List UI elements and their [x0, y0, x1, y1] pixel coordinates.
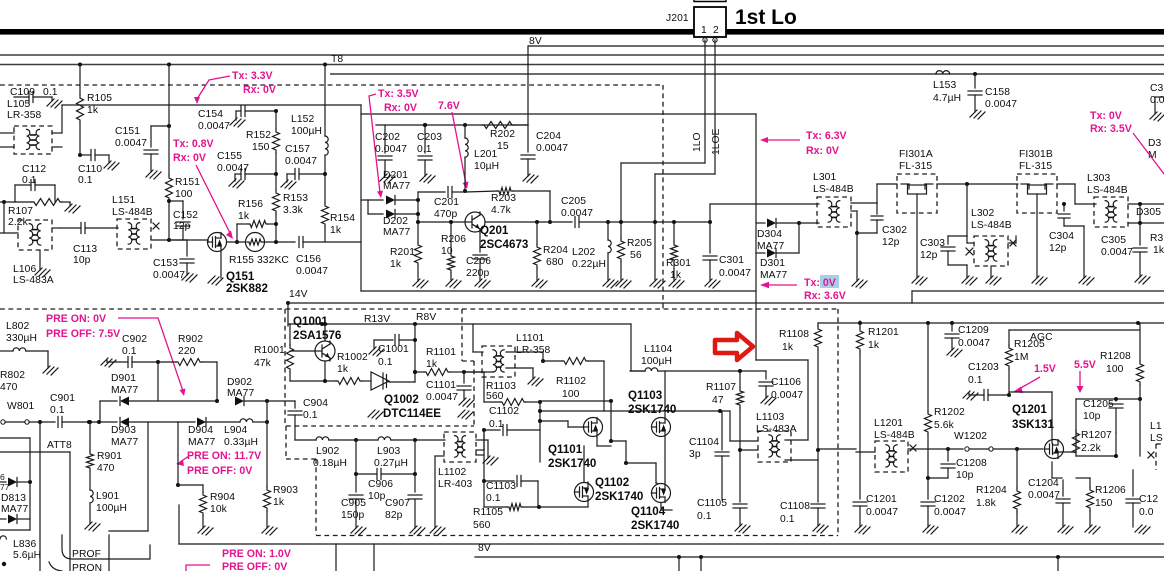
svg-text:100: 100 — [1106, 364, 1124, 375]
svg-text:8V: 8V — [529, 36, 542, 47]
svg-text:R205: R205 — [627, 238, 652, 249]
title bar — [0, 29, 1164, 35]
svg-text:0.0047: 0.0047 — [719, 268, 751, 279]
svg-text:0.1: 0.1 — [78, 175, 93, 186]
svg-text:0.0047: 0.0047 — [1101, 247, 1133, 258]
svg-text:12p: 12p — [1049, 243, 1067, 254]
svg-text:MA77: MA77 — [757, 241, 784, 252]
ground Q1002 — [368, 410, 383, 419]
wire L151 sec — [151, 239, 208, 241]
svg-text:C1102: C1102 — [489, 406, 519, 417]
wire Q201 out — [485, 221, 572, 223]
svg-text:L903: L903 — [377, 446, 400, 457]
svg-text:10µH: 10µH — [474, 161, 499, 172]
svg-text:680: 680 — [546, 257, 564, 268]
wire bottom stubs — [678, 557, 680, 571]
svg-text:2: 2 — [713, 25, 719, 36]
svg-text:R107: R107 — [8, 206, 33, 217]
svg-text:C3: C3 — [1150, 83, 1164, 94]
svg-text:1k: 1k — [868, 340, 880, 351]
svg-text:10k: 10k — [210, 504, 228, 515]
svg-text:L151: L151 — [112, 195, 135, 206]
svg-text:1.5V: 1.5V — [1034, 363, 1056, 375]
svg-text:R1002: R1002 — [337, 352, 368, 363]
svg-text:0.1: 0.1 — [697, 511, 712, 522]
wire L302 gnd — [966, 265, 968, 278]
svg-text:R1206: R1206 — [1095, 485, 1126, 496]
svg-text:0.0047: 0.0047 — [536, 143, 568, 154]
svg-text:C1203: C1203 — [968, 362, 999, 373]
svg-text:Tx: 3.3V: Tx: 3.3V — [232, 70, 273, 82]
svg-text:1k: 1k — [273, 497, 285, 508]
svg-text:R902: R902 — [178, 334, 203, 345]
svg-text:R1001: R1001 — [254, 345, 285, 356]
svg-text:LS-484B: LS-484B — [1087, 185, 1128, 196]
svg-text:C1104: C1104 — [689, 437, 719, 448]
wire mixer bottom — [587, 502, 589, 507]
svg-text:0.33µH: 0.33µH — [224, 437, 258, 448]
svg-text:L1104: L1104 — [644, 344, 673, 355]
box D813 — [0, 437, 30, 439]
svg-text:2.2k: 2.2k — [1081, 443, 1102, 454]
wire 8V bus — [528, 45, 1164, 47]
svg-text:C304: C304 — [1049, 231, 1074, 242]
svg-text:C158: C158 — [985, 87, 1010, 98]
svg-text:R802: R802 — [0, 370, 25, 381]
svg-text:Rx: 3.6V: Rx: 3.6V — [804, 290, 846, 302]
junction R105 — [78, 153, 82, 157]
ground C907 — [410, 526, 425, 535]
svg-text:12p: 12p — [920, 250, 938, 261]
wire L301 sec — [851, 202, 877, 204]
wire L902 row — [295, 439, 316, 441]
svg-text:MA77: MA77 — [1, 504, 28, 515]
svg-text:MA77: MA77 — [227, 388, 254, 399]
svg-text:0.1: 0.1 — [968, 375, 983, 386]
svg-text:12p: 12p — [882, 237, 900, 248]
svg-text:R1207: R1207 — [1081, 430, 1112, 441]
svg-text:R3: R3 — [1150, 233, 1164, 244]
ground C1202 — [923, 525, 938, 534]
svg-text:0.22µH: 0.22µH — [572, 259, 606, 270]
svg-text:0.1: 0.1 — [303, 410, 318, 421]
svg-text:5.6µH: 5.6µH — [13, 550, 41, 561]
svg-text:56: 56 — [630, 250, 642, 261]
ground R301 — [669, 279, 684, 288]
svg-text:3SK131: 3SK131 — [1012, 418, 1054, 431]
svg-text:0.18µH: 0.18µH — [313, 458, 347, 469]
svg-text:C1105: C1105 — [697, 498, 727, 509]
svg-text:2SK882: 2SK882 — [226, 282, 268, 295]
svg-text:1k: 1k — [238, 211, 250, 222]
svg-text:Rx: 0V: Rx: 0V — [243, 84, 276, 96]
svg-text:L202: L202 — [572, 247, 595, 258]
svg-text:D901: D901 — [111, 373, 136, 384]
pin circles J201 — [703, 38, 707, 42]
svg-text:C152: C152 — [173, 210, 198, 221]
svg-text:PRE ON: 1.0V: PRE ON: 1.0V — [222, 548, 291, 560]
svg-text:C201: C201 — [434, 197, 459, 208]
svg-text:82p: 82p — [385, 510, 403, 521]
svg-text:LS-483A: LS-483A — [13, 275, 54, 286]
ground C306 — [1150, 112, 1164, 121]
wire right rail2 — [288, 302, 1164, 304]
svg-text:D902: D902 — [227, 377, 252, 388]
svg-text:1k: 1k — [782, 342, 794, 353]
ground R204 — [532, 279, 547, 288]
svg-text:Q1102: Q1102 — [595, 476, 629, 489]
svg-text:MA77: MA77 — [111, 385, 138, 396]
svg-text:0.0047: 0.0047 — [375, 144, 407, 155]
ground C902 — [101, 358, 116, 367]
svg-text:Q1101: Q1101 — [548, 443, 583, 456]
svg-text:R154: R154 — [330, 213, 355, 224]
svg-text:0.0: 0.0 — [1139, 507, 1154, 518]
svg-text:D304: D304 — [757, 229, 782, 240]
transistor Q1103 — [652, 418, 671, 437]
svg-text:T8: T8 — [331, 54, 343, 65]
ground C1105 — [735, 524, 750, 533]
svg-text:D903: D903 — [111, 425, 136, 436]
ground C304 — [1079, 276, 1094, 285]
svg-text:10p: 10p — [1083, 411, 1101, 422]
svg-text:R901: R901 — [97, 451, 122, 462]
svg-text:C904: C904 — [303, 398, 328, 409]
svg-text:Q1201: Q1201 — [1012, 403, 1047, 416]
svg-text:C901: C901 — [50, 393, 75, 404]
svg-text:C112: C112 — [22, 164, 46, 175]
transistor Q151 — [208, 233, 227, 252]
svg-text:C153: C153 — [153, 258, 178, 269]
svg-text:0.0047: 0.0047 — [866, 507, 898, 518]
svg-text:ATT8: ATT8 — [47, 440, 72, 451]
svg-text:L153: L153 — [933, 80, 956, 91]
svg-text:PRE OFF: 0V: PRE OFF: 0V — [222, 561, 287, 571]
svg-text:L1101: L1101 — [516, 333, 545, 344]
svg-text:6: 6 — [0, 472, 5, 482]
svg-text:L303: L303 — [1087, 173, 1110, 184]
svg-text:D813: D813 — [1, 493, 26, 504]
svg-text:C1106: C1106 — [771, 377, 801, 388]
svg-text:C305: C305 — [1101, 235, 1126, 246]
wire C902 junction drop — [157, 362, 159, 401]
wire Q1201 drain — [1057, 451, 1076, 453]
ground R107 — [65, 204, 80, 213]
ground R201 — [413, 279, 428, 288]
svg-text:L105: L105 — [7, 99, 30, 110]
ground C157 — [281, 180, 296, 189]
svg-text:C206: C206 — [466, 256, 491, 267]
svg-text:150: 150 — [1095, 498, 1113, 509]
ground C1106 — [761, 396, 776, 405]
svg-text:L802: L802 — [6, 321, 29, 332]
junction 14V — [286, 301, 290, 305]
svg-text:3p: 3p — [689, 449, 701, 460]
svg-text:1k: 1k — [337, 364, 349, 375]
ground C1201 — [855, 525, 870, 534]
svg-text:3.3k: 3.3k — [283, 205, 304, 216]
svg-text:L302: L302 — [971, 208, 994, 219]
svg-text:R13V: R13V — [364, 314, 390, 325]
wire node rail y105 — [62, 104, 361, 106]
wire bottom bus right — [475, 556, 1164, 558]
red arrow annotation — [715, 333, 753, 360]
wire 1LO drop to mixer — [620, 163, 622, 222]
annotation Tx 0V highlight — [820, 275, 839, 288]
svg-text:C155: C155 — [217, 151, 242, 162]
svg-text:LS-484B: LS-484B — [874, 430, 915, 441]
wire 1LOE — [714, 40, 716, 174]
svg-text:100µH: 100µH — [96, 503, 127, 514]
svg-text:0.0047: 0.0047 — [934, 507, 966, 518]
svg-text:5.5V: 5.5V — [1074, 359, 1096, 371]
svg-text:FI301A: FI301A — [899, 149, 933, 160]
svg-text:PRE ON: 11.7V: PRE ON: 11.7V — [187, 450, 261, 462]
dashed bottom long — [0, 308, 838, 310]
wire D304 up — [799, 222, 819, 224]
transistor Q1101 — [584, 418, 603, 437]
wire 1LO — [704, 40, 706, 163]
svg-text:Rx: 0V: Rx: 0V — [173, 152, 206, 164]
digital transistor Q1002 — [371, 372, 389, 390]
svg-text:C205: C205 — [561, 196, 586, 207]
svg-text:LS-484B: LS-484B — [112, 207, 153, 218]
svg-text:0.1: 0.1 — [43, 87, 58, 98]
ground L106 — [39, 250, 41, 270]
svg-text:10p: 10p — [368, 491, 386, 502]
svg-text:C1204: C1204 — [1028, 478, 1059, 489]
svg-text:R201: R201 — [390, 247, 415, 258]
svg-text:0.1: 0.1 — [122, 346, 137, 357]
svg-text:0.1: 0.1 — [50, 405, 65, 416]
svg-text:PRE OFF: 0V: PRE OFF: 0V — [187, 465, 252, 477]
svg-text:150: 150 — [252, 142, 270, 153]
svg-text:560: 560 — [473, 520, 491, 531]
svg-text:L902: L902 — [316, 446, 339, 457]
wire bus line2 — [0, 54, 1164, 56]
svg-text:FL-315: FL-315 — [899, 161, 932, 172]
junction dots on bus — [78, 63, 82, 67]
svg-text:C1108: C1108 — [780, 501, 810, 512]
svg-text:1st Lo: 1st Lo — [735, 6, 797, 29]
svg-text:0.1: 0.1 — [486, 493, 501, 504]
svg-text:0.0047: 0.0047 — [985, 99, 1017, 110]
svg-text:1.8k: 1.8k — [976, 498, 997, 509]
svg-text:0.0047: 0.0047 — [198, 121, 230, 132]
svg-text:0.0047: 0.0047 — [958, 338, 990, 349]
wire Q1201 out — [1139, 399, 1141, 456]
svg-text:MA77: MA77 — [760, 270, 787, 281]
svg-text:0.1: 0.1 — [780, 514, 795, 525]
svg-text:FI301B: FI301B — [1019, 149, 1053, 160]
ground C158 — [970, 110, 985, 119]
wire 1LOE drop to mixer — [654, 174, 656, 280]
svg-text:Q201: Q201 — [480, 224, 509, 237]
svg-text:R904: R904 — [210, 492, 235, 503]
ground C151 — [146, 170, 161, 179]
svg-text:C154: C154 — [198, 109, 223, 120]
svg-text:W801: W801 — [7, 401, 34, 412]
svg-text:100: 100 — [562, 389, 580, 400]
svg-text:R204: R204 — [543, 245, 568, 256]
svg-text:R206: R206 — [441, 234, 466, 245]
svg-text:PRE OFF: 7.5V: PRE OFF: 7.5V — [46, 328, 120, 340]
wire 14V rail — [288, 323, 631, 325]
svg-text:L1103: L1103 — [756, 412, 785, 423]
svg-text:R1107: R1107 — [706, 382, 736, 393]
svg-text:220p: 220p — [466, 268, 489, 279]
svg-text:L1102: L1102 — [438, 467, 467, 478]
svg-text:15: 15 — [497, 141, 509, 152]
svg-text:14V: 14V — [289, 289, 308, 300]
svg-text:DTC114EE: DTC114EE — [383, 407, 441, 420]
svg-text:Tx: 3.5V: Tx: 3.5V — [378, 88, 419, 100]
ground C1204 — [1058, 525, 1073, 534]
svg-text:C1202: C1202 — [934, 494, 965, 505]
wire left edge — [0, 201, 4, 203]
svg-text:R1105: R1105 — [473, 507, 503, 518]
svg-text:C202: C202 — [375, 132, 400, 143]
svg-text:LR-358: LR-358 — [7, 110, 42, 121]
wire mixer out to L1201 — [785, 459, 818, 461]
svg-text:R1108: R1108 — [779, 329, 809, 340]
svg-text:L836: L836 — [13, 539, 36, 550]
wire Q1201 gate2 — [1009, 391, 1052, 393]
svg-text:100: 100 — [175, 189, 193, 200]
ground R205 — [616, 279, 631, 288]
dashed box mixer top — [837, 309, 839, 536]
ground FI301A — [912, 276, 927, 285]
svg-text:0.1: 0.1 — [489, 419, 504, 430]
svg-text:R202: R202 — [490, 129, 515, 140]
dashed box Q1001 — [284, 309, 286, 426]
svg-text:R105: R105 — [87, 93, 112, 104]
svg-text:Rx: 3.5V: Rx: 3.5V — [1090, 123, 1132, 135]
svg-text:R301: R301 — [666, 258, 691, 269]
wire L1102 secondary junction — [483, 430, 485, 507]
diode D813 symbols — [0, 481, 6, 483]
svg-text:Tx: 0V: Tx: 0V — [804, 277, 836, 289]
svg-text:MA77: MA77 — [383, 227, 410, 238]
wire bus line3 T8 — [0, 64, 1164, 66]
svg-text:R1204: R1204 — [976, 485, 1007, 496]
wire to Q201 box — [360, 105, 362, 291]
svg-text:D301: D301 — [760, 258, 785, 269]
wire mixer gates — [540, 400, 611, 402]
svg-text:R1102: R1102 — [556, 376, 586, 387]
ground R1204 — [1012, 525, 1027, 534]
wire AGC loop — [1009, 329, 1139, 331]
ground L1102 — [430, 526, 445, 535]
ground R1206 — [1085, 525, 1100, 534]
svg-text:MA77: MA77 — [188, 437, 215, 448]
svg-text:R156: R156 — [238, 199, 263, 210]
svg-text:J201: J201 — [666, 13, 689, 24]
svg-text:4.7k: 4.7k — [491, 205, 512, 216]
wire PROF box — [62, 535, 150, 559]
transistor Q1102 — [575, 483, 594, 502]
svg-text:0.0047: 0.0047 — [426, 392, 458, 403]
svg-text:PROF: PROF — [72, 549, 101, 560]
svg-text:C301: C301 — [719, 255, 744, 266]
svg-text:C906: C906 — [368, 479, 393, 490]
svg-text:560: 560 — [486, 391, 504, 402]
svg-text:LS-484B: LS-484B — [813, 184, 854, 195]
svg-text:C905: C905 — [341, 498, 366, 509]
wire mixer internal — [596, 437, 598, 446]
ground FI301B — [1032, 276, 1047, 285]
ground C1206 — [1135, 525, 1150, 534]
svg-text:C156: C156 — [296, 254, 321, 265]
svg-text:D904: D904 — [188, 425, 213, 436]
ground C154 — [230, 118, 245, 127]
svg-text:47k: 47k — [254, 358, 272, 369]
svg-text:R1205: R1205 — [1014, 339, 1045, 350]
ground C203 — [420, 174, 435, 183]
svg-text:2SK1740: 2SK1740 — [628, 403, 676, 416]
ground C305 — [1135, 275, 1150, 284]
ground R904 — [198, 526, 213, 535]
svg-text:Tx: 6.3V: Tx: 6.3V — [806, 130, 847, 142]
svg-text:PRE ON: 0V: PRE ON: 0V — [46, 313, 106, 325]
svg-text:1k: 1k — [390, 259, 402, 270]
svg-text:0.0047: 0.0047 — [115, 138, 147, 149]
ground C1209 — [947, 348, 962, 357]
svg-text:1k: 1k — [1153, 245, 1164, 256]
dashed bottom mixer — [316, 535, 838, 537]
svg-text:0.27µH: 0.27µH — [374, 458, 408, 469]
svg-text:C1209: C1209 — [958, 325, 989, 336]
transistor Q1104 — [652, 484, 671, 503]
svg-text:7.6V: 7.6V — [438, 100, 460, 112]
svg-text:2SA1576: 2SA1576 — [293, 329, 342, 342]
svg-text:L904: L904 — [224, 425, 247, 436]
wire Q201 top rail — [376, 124, 528, 126]
svg-text:MA77: MA77 — [383, 181, 410, 192]
svg-text:LS-484B: LS-484B — [971, 220, 1012, 231]
wire 8V drop — [527, 46, 529, 125]
svg-text:1k: 1k — [87, 105, 99, 116]
svg-text:C1101: C1101 — [426, 380, 456, 391]
svg-text:0.0047: 0.0047 — [296, 266, 328, 277]
svg-text:470: 470 — [0, 382, 18, 393]
svg-text:220: 220 — [178, 346, 196, 357]
wire bus line4 — [330, 73, 1164, 75]
svg-text:D201: D201 — [383, 170, 408, 181]
ground L202 — [603, 279, 618, 288]
wire L1102 down — [435, 455, 444, 457]
svg-text:R151: R151 — [175, 177, 200, 188]
ground C206 — [475, 279, 490, 288]
svg-text:0.1: 0.1 — [378, 357, 393, 368]
svg-text:1k: 1k — [330, 225, 342, 236]
wire right rail3 — [818, 322, 1164, 324]
svg-text:8V: 8V — [478, 543, 491, 554]
svg-text:100µH: 100µH — [291, 126, 322, 137]
svg-text:150p: 150p — [341, 510, 364, 521]
svg-text:C1103: C1103 — [486, 481, 516, 492]
wire L303 out — [1128, 203, 1164, 205]
svg-text:100µH: 100µH — [641, 356, 672, 367]
ground L302 — [962, 276, 977, 285]
svg-text:0.1: 0.1 — [417, 144, 432, 155]
svg-text:C151: C151 — [115, 126, 140, 137]
svg-text:C902: C902 — [122, 334, 147, 345]
wire Q1001 collector — [324, 361, 326, 381]
svg-text:LS: LS — [1150, 433, 1163, 444]
box Q201 block — [361, 113, 756, 115]
svg-text:Tx: 0V: Tx: 0V — [1090, 110, 1122, 122]
